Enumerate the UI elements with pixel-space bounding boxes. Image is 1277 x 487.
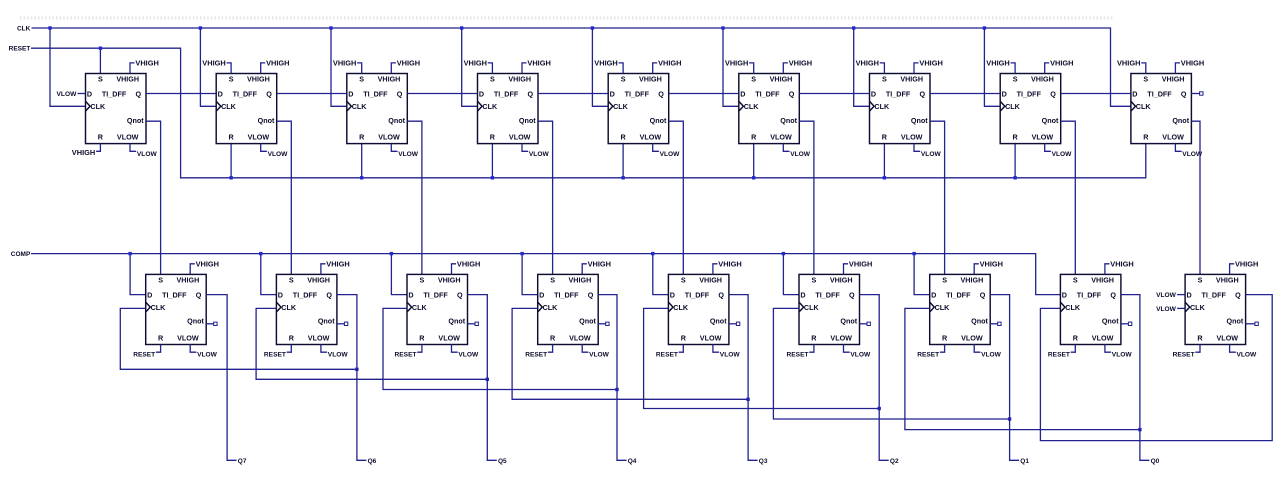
U1 VHIGH label on R pin: [72, 144, 101, 157]
X9 Qnot open-end marker: [1255, 322, 1258, 325]
U4 VHIGH supply label (top): [522, 59, 551, 74]
wire CLK tap to U1 clock pin: [50, 28, 86, 106]
X2 VHIGH supply label (top): [321, 260, 350, 275]
junction CLK/U7: [852, 26, 855, 29]
wire COMP tap to X3 D pin: [391, 254, 407, 295]
svg-text:COMP: COMP: [11, 251, 31, 258]
junction COMP/X6: [782, 252, 785, 255]
U5 VLOW supply label (bottom): [653, 144, 680, 158]
wire X1 Q to output Q7: [206, 295, 236, 461]
wire X3 Q to output Q5: [468, 295, 497, 461]
wire U4 Q to U5 D: [538, 93, 608, 95]
X1 VLOW supply label (bottom): [190, 345, 217, 359]
flip-flop X5 (TI_DFF, bottom row): [668, 274, 729, 344]
X7 VHIGH supply label (top): [974, 260, 1003, 275]
wire U6 reset pin to R bus: [753, 144, 755, 178]
X4 Qnot open-end marker: [606, 322, 609, 325]
U4 VHIGH label on S pin: [464, 59, 493, 74]
flip-flop U5 (TI_DFF, top row): [608, 74, 669, 144]
X6 VHIGH supply label (top): [844, 260, 873, 275]
svg-text:RESET: RESET: [9, 46, 31, 53]
X9 RESET label on R pin: [1173, 345, 1200, 359]
X4 VLOW supply label (bottom): [582, 345, 609, 359]
U3 VLOW supply label (bottom): [391, 144, 418, 158]
wire X2 Q feedback to X1 clock: [120, 308, 357, 369]
U7 VHIGH supply label (top): [914, 59, 943, 74]
U1 VLOW label on D pin: [57, 91, 86, 98]
X1 VHIGH supply label (top): [190, 260, 219, 275]
flip-flop U2 (TI_DFF, top row): [216, 74, 277, 144]
wire X5 Q to output Q3: [729, 295, 758, 461]
flip-flop U4 (TI_DFF, top row): [478, 74, 539, 144]
U8 VHIGH label on S pin: [986, 59, 1015, 74]
X7 Qnot open-end marker: [998, 322, 1001, 325]
junction COMP/X4: [520, 252, 523, 255]
U7 VHIGH label on S pin: [856, 59, 885, 74]
X2 Qnot open-end marker: [344, 322, 347, 325]
wire U9 Qnot to X9 S pin: [1191, 121, 1200, 274]
wire U8 Q to U9 D: [1061, 93, 1131, 95]
junction R bus/U2: [229, 176, 232, 179]
wire X4 Q to output Q4: [598, 295, 626, 461]
wire CLK tap to U4 clock pin: [462, 28, 478, 106]
X2 VLOW supply label (bottom): [321, 345, 348, 359]
U5 VHIGH supply label (top): [653, 59, 682, 74]
wire U3 Qnot to X3 S pin: [407, 121, 422, 274]
X8 Qnot open-end marker: [1128, 322, 1131, 325]
wire U8 reset pin to R bus: [1014, 144, 1016, 178]
junction X2 Q / X1 clock line: [355, 368, 358, 371]
U6 VLOW supply label (bottom): [783, 144, 810, 158]
junction R bus/U8: [1013, 176, 1016, 179]
flip-flop X4 (TI_DFF, bottom row): [538, 274, 599, 344]
wire CLK tap to U7 clock pin: [854, 28, 870, 106]
junction R bus/U7: [883, 176, 886, 179]
junction COMP/X2: [259, 252, 262, 255]
X5 VLOW supply label (bottom): [713, 345, 740, 359]
U9 VHIGH supply label (top): [1175, 59, 1204, 74]
X8 VHIGH supply label (top): [1105, 260, 1134, 275]
flip-flop U7 (TI_DFF, top row): [870, 74, 931, 144]
wire U7 Qnot to X7 S pin: [930, 121, 945, 274]
svg-text:Q2: Q2: [890, 458, 899, 465]
wire U7 Q to U8 D: [930, 93, 1000, 95]
X8 RESET label on R pin: [1048, 345, 1075, 359]
X9 VHIGH supply label (top): [1230, 260, 1259, 275]
wire X3 Q feedback to X2 clock: [256, 308, 487, 379]
U8 VHIGH supply label (top): [1045, 59, 1074, 74]
flip-flop U8 (TI_DFF, top row): [1000, 74, 1060, 144]
junction X4 Q / X3 clock line: [615, 388, 618, 391]
U2 VHIGH label on S pin: [202, 59, 231, 74]
junction COMP/X3: [390, 252, 393, 255]
wire X2 Qnot stub (open): [337, 323, 345, 325]
wire X4 Qnot stub (open): [598, 323, 606, 325]
X9 VLOW label on D pin: [1156, 292, 1185, 299]
U6 VHIGH label on S pin: [725, 59, 754, 74]
X5 Qnot open-end marker: [736, 322, 739, 325]
flip-flop X6 (TI_DFF, bottom row): [799, 274, 860, 344]
U9 VHIGH label on S pin: [1117, 59, 1146, 74]
wire X5 Q feedback to X4 clock: [512, 308, 748, 399]
svg-text:Q5: Q5: [498, 458, 507, 465]
U7 VLOW supply label (bottom): [914, 144, 941, 158]
X3 RESET label on R pin: [395, 345, 422, 359]
wire X7 Qnot stub (open): [990, 323, 998, 325]
U9 VLOW supply label (bottom): [1175, 144, 1202, 158]
junction CLK/U4: [460, 26, 463, 29]
wire U5 Q to U6 D: [669, 93, 739, 95]
wire X8 Q to output Q0: [1121, 295, 1150, 461]
flip-flop U1 (TI_DFF, top row): [86, 74, 147, 144]
junction X3 Q / X2 clock line: [486, 378, 489, 381]
svg-text:Q6: Q6: [368, 458, 377, 465]
X5 RESET label on R pin: [656, 345, 683, 359]
wire X4 Q feedback to X3 clock: [383, 308, 617, 389]
X3 Qnot open-end marker: [475, 322, 478, 325]
U2 VLOW supply label (bottom): [261, 144, 288, 158]
faint printed guide line: [20, 16, 1113, 19]
junction CLK/U3: [329, 26, 332, 29]
junction R bus/U6: [752, 176, 755, 179]
X8 VLOW supply label (bottom): [1105, 345, 1132, 359]
junction COMP/X5: [651, 252, 654, 255]
svg-text:Q4: Q4: [628, 458, 637, 465]
X4 RESET label on R pin: [525, 345, 552, 359]
flip-flop X1 (TI_DFF, bottom row): [146, 274, 207, 344]
U8 VLOW supply label (bottom): [1045, 144, 1072, 158]
junction R bus/U3: [360, 176, 363, 179]
wire COMP tap to X4 D pin: [522, 254, 538, 295]
wire U2 reset pin to R bus: [230, 144, 232, 178]
svg-text:Q1: Q1: [1020, 458, 1029, 465]
junction CLK/U6: [721, 26, 724, 29]
wire CLK tap to U3 clock pin: [331, 28, 347, 106]
X1 Qnot open-end marker: [214, 322, 217, 325]
U1 VHIGH supply label (top): [130, 59, 159, 74]
wire U1 Q to U2 D: [146, 93, 216, 95]
X1 RESET label on R pin: [133, 345, 160, 359]
svg-text:Q3: Q3: [759, 458, 768, 465]
junction CLK/U8: [983, 26, 986, 29]
X5 VHIGH supply label (top): [713, 260, 742, 275]
wire X6 Q to output Q2: [860, 295, 889, 461]
wire X7 Q to output Q1: [990, 295, 1019, 461]
junction R bus/U4: [491, 176, 494, 179]
wire COMP tap to X2 D pin: [261, 254, 277, 295]
X9 VLOW label on CLK pin: [1156, 306, 1185, 313]
U9 Q open-end marker: [1200, 92, 1203, 95]
wire X8 Q feedback to X7 clock: [905, 308, 1140, 429]
wire COMP tap to X5 D pin: [653, 254, 669, 295]
wire X5 Qnot stub (open): [729, 323, 737, 325]
flip-flop X7 (TI_DFF, bottom row): [930, 274, 991, 344]
wire X1 Qnot stub (open): [206, 323, 214, 325]
wire U6 Qnot to X6 S pin: [799, 121, 814, 274]
wire COMP tap to X7 D pin: [914, 254, 930, 295]
junction X5 Q / X4 clock line: [746, 398, 749, 401]
svg-text:Q0: Q0: [1151, 458, 1160, 465]
junction R bus/U5: [621, 176, 624, 179]
X6 RESET label on R pin: [787, 345, 814, 359]
wire U9 Q stub (open): [1191, 93, 1199, 95]
wire RESET to U1 set pin: [99, 48, 101, 73]
X9 VLOW supply label (bottom): [1230, 345, 1257, 359]
U3 VHIGH label on S pin: [333, 59, 362, 74]
wire X7 Q feedback to X6 clock: [773, 308, 1009, 419]
wire COMP tap to X1 D pin: [130, 254, 146, 295]
X6 Qnot open-end marker: [867, 322, 870, 325]
X3 VLOW supply label (bottom): [452, 345, 479, 359]
flip-flop U6 (TI_DFF, top row): [739, 74, 800, 144]
wire CLK tap to U2 clock pin: [200, 28, 216, 106]
X6 VLOW supply label (bottom): [844, 345, 871, 359]
U1 VLOW supply label (bottom): [130, 144, 157, 158]
junction COMP/X7: [912, 252, 915, 255]
U3 VHIGH supply label (top): [391, 59, 420, 74]
wire X3 Qnot stub (open): [468, 323, 476, 325]
X2 RESET label on R pin: [264, 345, 291, 359]
junction X6 Q / X5 clock line: [878, 407, 881, 410]
wire X9 Qnot stub (open): [1246, 323, 1255, 325]
wire U5 reset pin to R bus: [622, 144, 624, 178]
junction CLK/U2: [199, 26, 202, 29]
wire X6 Q feedback to X5 clock: [644, 308, 880, 408]
wire U2 Q to U3 D: [277, 93, 347, 95]
X4 VHIGH supply label (top): [582, 260, 611, 275]
wire RESET trunk and R bus to U9 reset pin: [31, 48, 1146, 178]
wire X9 Q feedback to X8 clock: [1040, 295, 1272, 441]
flip-flop X9 (TI_DFF, bottom row): [1185, 274, 1246, 344]
U4 VLOW supply label (bottom): [522, 144, 549, 158]
flip-flop X8 (TI_DFF, bottom row): [1060, 274, 1121, 344]
wire X2 Q to output Q6: [337, 295, 367, 461]
U5 VHIGH label on S pin: [594, 59, 623, 74]
wire U1 Qnot to X1 S pin: [146, 121, 161, 274]
junction COMP/X1: [128, 252, 131, 255]
junction CLK/U5: [591, 26, 594, 29]
flip-flop X3 (TI_DFF, bottom row): [407, 274, 468, 344]
flip-flop X2 (TI_DFF, bottom row): [276, 274, 337, 344]
wire X8 Qnot stub (open): [1121, 323, 1129, 325]
wire U6 Q to U7 D: [799, 93, 869, 95]
junction X8 Q / X7 clock line: [1138, 428, 1141, 431]
wire U5 Qnot to X5 S pin: [669, 121, 684, 274]
X7 RESET label on R pin: [917, 345, 944, 359]
wire CLK tap to U8 clock pin: [984, 28, 1000, 106]
junction CLK/U1: [48, 26, 51, 29]
wire CLK tap to U6 clock pin: [723, 28, 739, 106]
junction RESET/U1 set: [99, 47, 102, 50]
wire U7 reset pin to R bus: [883, 144, 885, 178]
X3 VHIGH supply label (top): [452, 260, 481, 275]
wire U2 Qnot to X2 S pin: [277, 121, 292, 274]
wire X6 Qnot stub (open): [860, 323, 868, 325]
wire CLK trunk to U9 clock pin: [32, 28, 1131, 106]
wire COMP trunk to X8 D pin: [31, 254, 1060, 295]
X7 VLOW supply label (bottom): [974, 345, 1001, 359]
wire CLK tap to U5 clock pin: [592, 28, 608, 106]
wire U4 reset pin to R bus: [491, 144, 493, 178]
wire U3 reset pin to R bus: [361, 144, 363, 178]
svg-text:Q7: Q7: [238, 458, 247, 465]
U2 VHIGH supply label (top): [261, 59, 290, 74]
flip-flop U3 (TI_DFF, top row): [347, 74, 408, 144]
svg-text:CLK: CLK: [17, 26, 31, 33]
junction X7 Q / X6 clock line: [1008, 417, 1011, 420]
U6 VHIGH supply label (top): [783, 59, 812, 74]
wire U3 Q to U4 D: [407, 93, 477, 95]
wire U8 Qnot to X8 S pin: [1061, 121, 1076, 274]
wire U4 Qnot to X4 S pin: [538, 121, 553, 274]
wire COMP tap to X6 D pin: [783, 254, 799, 295]
flip-flop U9 (TI_DFF, top row): [1131, 74, 1192, 144]
